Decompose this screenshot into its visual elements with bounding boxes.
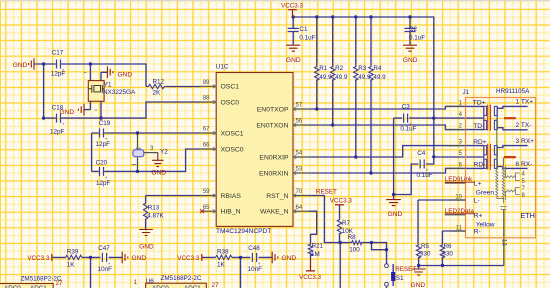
svg-text:Yellow: Yellow — [476, 221, 495, 228]
svg-text:27: 27 — [212, 282, 220, 288]
svg-text:2K: 2K — [153, 90, 162, 97]
svg-text:R5: R5 — [421, 243, 430, 250]
svg-text:R6: R6 — [444, 243, 453, 250]
svg-text:GND: GND — [13, 62, 28, 69]
svg-text:ZM5168P2-2C: ZM5168P2-2C — [161, 275, 202, 282]
svg-text:70: 70 — [296, 189, 303, 195]
svg-text:4.87K: 4.87K — [147, 213, 164, 220]
svg-text:0.1uF: 0.1uF — [409, 35, 425, 42]
svg-text:S1: S1 — [396, 275, 404, 282]
svg-text:RST_N: RST_N — [266, 193, 288, 200]
svg-text:11: 11 — [456, 225, 463, 231]
svg-text:GND: GND — [411, 282, 426, 288]
svg-text:OSC0: OSC0 — [221, 99, 240, 106]
svg-text:0.1uF: 0.1uF — [400, 125, 416, 132]
svg-text:Y2: Y2 — [160, 149, 168, 156]
svg-text:13: 13 — [501, 239, 507, 246]
svg-text:HIB_N: HIB_N — [221, 209, 241, 216]
svg-text:53: 53 — [296, 167, 303, 173]
svg-text:XOSC0: XOSC0 — [221, 146, 244, 153]
svg-text:56: 56 — [296, 119, 303, 125]
svg-text:89: 89 — [203, 80, 210, 86]
svg-text:12pF: 12pF — [96, 141, 111, 148]
svg-text:R1: R1 — [319, 65, 328, 72]
svg-text:2 TX-: 2 TX- — [516, 122, 532, 129]
svg-text:J1: J1 — [463, 89, 470, 96]
svg-text:67: 67 — [203, 127, 210, 133]
svg-text:GND: GND — [282, 255, 297, 262]
svg-text:R12: R12 — [153, 78, 165, 85]
svg-text:12pF: 12pF — [51, 71, 66, 78]
svg-text:HR911105A: HR911105A — [496, 88, 530, 95]
svg-text:GND: GND — [286, 57, 301, 64]
svg-text:R-: R- — [474, 228, 481, 235]
svg-text:RESET: RESET — [316, 189, 337, 196]
svg-text:RD+: RD+ — [473, 139, 487, 146]
svg-text:C47: C47 — [98, 245, 110, 252]
svg-text:R21: R21 — [312, 243, 324, 250]
svg-text:C4: C4 — [417, 150, 426, 157]
svg-text:U6: U6 — [146, 278, 155, 285]
svg-text:GND: GND — [139, 244, 154, 251]
svg-text:0.1uF: 0.1uF — [299, 35, 315, 42]
svg-text:1K: 1K — [217, 261, 226, 268]
svg-text:RESET: RESET — [395, 266, 416, 273]
svg-text:1 TX+: 1 TX+ — [516, 99, 534, 106]
svg-text:C18: C18 — [52, 105, 64, 112]
svg-text:12pF: 12pF — [96, 180, 111, 187]
svg-text:59: 59 — [203, 189, 210, 195]
svg-text:L+: L+ — [474, 181, 482, 188]
svg-text:ETH: ETH — [521, 211, 535, 220]
svg-text:49.9: 49.9 — [373, 74, 386, 81]
svg-text:EN0TXOP: EN0TXOP — [257, 106, 289, 113]
svg-text:C17: C17 — [52, 49, 64, 56]
svg-text:RD-: RD- — [474, 162, 486, 169]
svg-text:1K: 1K — [67, 261, 76, 268]
svg-text:65: 65 — [203, 205, 210, 211]
svg-text:88: 88 — [203, 96, 210, 102]
svg-text:OSC1: OSC1 — [221, 84, 240, 91]
svg-text:GND: GND — [151, 169, 166, 176]
svg-text:3 RX+: 3 RX+ — [516, 138, 535, 145]
svg-text:R3: R3 — [358, 65, 367, 72]
svg-text:330: 330 — [420, 251, 431, 258]
svg-text:R39: R39 — [67, 248, 79, 255]
svg-text:WAKE_N: WAKE_N — [260, 209, 289, 216]
svg-text:C48: C48 — [248, 245, 260, 252]
svg-text:L-: L- — [474, 197, 480, 204]
svg-text:0.1uF: 0.1uF — [417, 172, 433, 179]
svg-text:TM4C1294NCPDT: TM4C1294NCPDT — [216, 228, 271, 235]
svg-text:C2: C2 — [409, 26, 418, 33]
svg-text:100: 100 — [349, 246, 360, 253]
svg-text:GND: GND — [403, 57, 418, 64]
svg-text:EN0RXIP: EN0RXIP — [259, 154, 289, 161]
svg-text:Y1: Y1 — [104, 82, 112, 89]
svg-text:27: 27 — [56, 280, 64, 287]
svg-text:C1: C1 — [299, 26, 308, 33]
svg-text:VCC3.3: VCC3.3 — [281, 3, 304, 10]
svg-text:66: 66 — [203, 143, 210, 149]
svg-text:VCC3.3: VCC3.3 — [177, 255, 200, 262]
svg-text:R+: R+ — [474, 212, 483, 219]
svg-text:C19: C19 — [99, 120, 111, 127]
svg-text:XOSC1: XOSC1 — [221, 130, 244, 137]
svg-text:GND: GND — [132, 255, 147, 262]
svg-text:49.9: 49.9 — [335, 74, 348, 81]
svg-text:R7: R7 — [342, 220, 351, 227]
svg-text:330: 330 — [442, 251, 453, 258]
svg-text:10nF: 10nF — [98, 266, 113, 273]
svg-text:6 RX-: 6 RX- — [516, 161, 533, 168]
svg-text:Green: Green — [476, 189, 495, 196]
svg-text:57: 57 — [296, 103, 303, 109]
svg-text:EN0RXIN: EN0RXIN — [259, 170, 289, 177]
svg-text:VCC3.3: VCC3.3 — [299, 274, 322, 281]
svg-text:49.9: 49.9 — [358, 74, 371, 81]
svg-text:GND: GND — [118, 71, 133, 78]
svg-text:12pF: 12pF — [50, 128, 65, 135]
svg-text:10nF: 10nF — [248, 266, 263, 273]
svg-text:EN0TXON: EN0TXON — [256, 122, 288, 129]
svg-text:VCC3.3: VCC3.3 — [27, 255, 50, 262]
svg-text:TD-: TD- — [473, 123, 484, 130]
svg-text:49.9: 49.9 — [319, 74, 332, 81]
svg-text:RBIAS: RBIAS — [221, 193, 242, 200]
svg-text:R8: R8 — [348, 234, 357, 241]
svg-text:R4: R4 — [373, 65, 382, 72]
svg-text:NX3225GA: NX3225GA — [103, 89, 136, 96]
svg-text:GND: GND — [388, 211, 403, 218]
svg-text:C20: C20 — [96, 160, 108, 167]
svg-text:64: 64 — [296, 205, 303, 211]
svg-text:1M: 1M — [311, 251, 320, 258]
svg-text:10: 10 — [455, 194, 462, 200]
svg-text:C3: C3 — [402, 104, 411, 111]
svg-text:VCC3.3: VCC3.3 — [330, 198, 353, 205]
svg-text:U1C: U1C — [216, 64, 229, 71]
svg-text:1: 1 — [134, 279, 138, 286]
svg-text:+: + — [62, 122, 65, 127]
svg-text:R38: R38 — [217, 248, 229, 255]
svg-text:54: 54 — [296, 151, 303, 157]
svg-text:R2: R2 — [335, 65, 344, 72]
svg-text:TD+: TD+ — [473, 100, 486, 107]
svg-text:R13: R13 — [148, 205, 160, 212]
